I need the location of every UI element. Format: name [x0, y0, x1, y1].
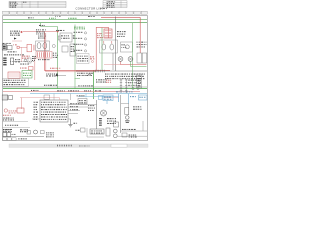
label AP180 — [18, 138, 27, 139]
wire code right of exit 2 — [70, 106, 78, 107]
marks right of BC1 — [12, 134, 16, 135]
labels right of CM2 — [133, 106, 142, 109]
relay K1 (red) — [27, 44, 32, 51]
left relay label cluster — [10, 31, 20, 36]
codes above gray bus — [78, 85, 93, 86]
footer left tabs — [3, 138, 7, 141]
title block text rows — [10, 2, 18, 8]
wire red drop left — [34, 56, 36, 80]
wire pink lower left — [20, 97, 60, 99]
green wire codes top b — [49, 18, 56, 19]
small note above bus — [55, 16, 61, 17]
specks above relay cluster — [39, 25, 45, 26]
small box BC3 — [27, 131, 31, 135]
small box next to SC1 — [28, 58, 31, 63]
schematic border frame — [3, 16, 148, 141]
wire right bottom upper — [120, 130, 147, 132]
labels under fuse row — [4, 54, 24, 55]
wire red left feed — [23, 31, 59, 33]
wire red drop pair B — [45, 33, 47, 72]
round connector CN6b — [113, 134, 117, 138]
labels right of BM1 — [129, 135, 137, 138]
wire red stub CN1 — [120, 61, 122, 64]
U6 text — [71, 46, 75, 52]
bottom connector box BC1b — [7, 133, 11, 137]
text above terminal boxes — [137, 42, 147, 48]
wire green link right — [131, 66, 147, 68]
footer band — [9, 144, 148, 147]
wire red pin a — [32, 45, 34, 51]
blue module B3 — [99, 96, 103, 100]
wire red drop at x96 — [95, 27, 97, 70]
ground symbol GND1 — [68, 119, 72, 127]
relay text cluster — [36, 29, 46, 34]
connector pin stack P1 — [3, 58, 6, 66]
labels under J5 — [38, 59, 49, 60]
terminal circle a — [132, 87, 134, 89]
wire pink lower right — [104, 97, 119, 99]
connector module CM1 — [114, 122, 119, 127]
wire blue branch — [78, 95, 119, 97]
fuse block F1 — [2, 45, 6, 50]
mid-left note — [20, 64, 29, 65]
top small note — [88, 16, 95, 17]
red code near T1 — [13, 44, 17, 45]
WB1 text — [91, 130, 103, 133]
wire green branch drop — [40, 23, 42, 27]
revision table text — [107, 1, 116, 7]
center-right device text block — [78, 56, 89, 62]
blue module BB2 — [139, 95, 148, 100]
cluster right of stacks — [128, 80, 141, 86]
bottom-left note B — [5, 125, 18, 126]
bottom wide box WB1 — [90, 129, 104, 134]
title block right column text — [23, 2, 26, 3]
red list text — [9, 110, 17, 113]
G5 text — [23, 73, 31, 76]
narrow connector box NC1 — [106, 128, 110, 136]
wire HL1 lower exit — [68, 118, 71, 120]
junction box JB1 — [3, 78, 29, 86]
legend list with terminal circles — [74, 32, 87, 52]
right text band rows — [105, 74, 145, 80]
wire bottom run — [87, 136, 104, 138]
footer scale ticks — [57, 145, 72, 147]
wire gray drop right of list box — [70, 94, 72, 100]
connector module CM2 — [125, 108, 129, 115]
right bottom labels — [122, 129, 136, 130]
wire black right drop — [119, 95, 121, 133]
wire gray lower bus — [3, 86, 147, 88]
footer box — [111, 144, 127, 147]
relay box U3 — [60, 33, 72, 42]
wire green stub — [75, 77, 81, 79]
wire red jumper top — [96, 26, 108, 28]
small bottom module BM1 — [122, 133, 127, 137]
blue codes above bus — [116, 91, 133, 92]
wire red drop pair A — [43, 32, 45, 71]
red lamp L2 — [4, 109, 7, 112]
round connector CN5 — [34, 130, 38, 134]
blue module B2 — [103, 95, 113, 101]
BB2 text — [139, 97, 145, 98]
bottom-left note C — [3, 129, 12, 130]
relay text cluster b — [38, 36, 46, 39]
BM2 label — [76, 130, 80, 131]
arrow marker — [14, 38, 17, 40]
U7 labels — [15, 59, 20, 62]
red codes left of M1 — [97, 33, 103, 38]
heater block H1 (red hatch) — [8, 72, 20, 79]
label above U3 — [56, 30, 64, 31]
red codes right of DB1 — [90, 56, 94, 59]
text under junction — [96, 79, 107, 82]
B1 text — [79, 100, 86, 103]
bottom text cluster x20 — [20, 129, 28, 132]
label right of ground — [74, 123, 78, 124]
wire green drop at x57 — [57, 27, 59, 89]
wire green drop at x102 — [101, 28, 103, 71]
connector block J5 (red pins) — [36, 52, 52, 59]
wire codes above blue bus a — [57, 90, 65, 91]
node diamond mid — [56, 74, 58, 76]
blue code right — [130, 96, 136, 97]
right relay text cluster — [117, 31, 126, 37]
wire code right of exit 1 — [70, 103, 79, 104]
bottom-left text rows — [3, 118, 14, 121]
wire pink upper stub — [12, 40, 22, 42]
terminal boxes right — [137, 53, 142, 63]
SV2 red pin a — [103, 41, 105, 44]
connector list strip — [3, 11, 148, 14]
wire stub from diamond — [58, 74, 66, 76]
wire green drop at x75 — [74, 25, 76, 89]
terminal circle b — [137, 87, 139, 89]
wire bottom-left row 2 — [3, 127, 31, 129]
wire green drop at x93 — [93, 71, 95, 100]
wire gray continuation x128 — [128, 104, 130, 116]
wire green bus G2 — [3, 22, 147, 24]
wire bottom-left bus — [3, 136, 45, 138]
wire blue stub down — [106, 101, 108, 105]
wire red mid bus B — [46, 71, 96, 73]
connector stack CN4 — [120, 79, 128, 93]
labels below mid bus left part — [77, 73, 93, 76]
junction dot red/green — [57, 31, 58, 32]
round connector CN6a — [113, 129, 117, 133]
specks under fuse blocks — [8, 51, 17, 52]
text right of U3 — [73, 35, 75, 38]
red note row — [3, 115, 11, 116]
bottom-center text — [46, 132, 54, 137]
small box BC2 — [41, 131, 45, 134]
wire codes above blue bus d — [95, 90, 101, 91]
wire code above red bus — [31, 90, 39, 91]
wire green bus G1 — [3, 19, 147, 21]
wire drop into HL1 top — [53, 94, 55, 100]
red node diamond — [20, 31, 23, 33]
connector circle CC1 — [126, 116, 130, 120]
text left of connector column — [88, 105, 95, 111]
SV3 text — [121, 44, 126, 48]
wire green lower bus — [3, 88, 147, 90]
module B1 — [78, 99, 87, 105]
mid labels under bus — [46, 74, 58, 77]
red module M1 — [104, 29, 112, 38]
wire red pin b — [34, 45, 36, 51]
wires out of HL1 right — [68, 104, 97, 106]
wire list box left link — [32, 118, 40, 120]
wire blue lower bus — [30, 93, 147, 95]
round connector CN2 — [128, 57, 133, 62]
wire red lower bus — [3, 91, 140, 93]
wire black drop x113 — [112, 53, 114, 70]
wire dashed shield link — [10, 61, 34, 63]
wire blue drop x128 — [128, 94, 130, 104]
solenoid block SV2 — [100, 40, 118, 53]
J5 pin labels — [53, 53, 58, 58]
sheet note under rev table — [100, 8, 107, 9]
wire black mid bus right — [76, 70, 147, 72]
module U7 — [11, 58, 14, 65]
text above B1 — [77, 95, 85, 96]
HL1 rows — [41, 102, 67, 120]
red terminal circle — [92, 61, 94, 63]
green module G5 — [22, 71, 32, 79]
bottom-left corner labels — [3, 129, 12, 132]
stack S2 — [99, 118, 102, 126]
wire code right of exit 3 — [70, 109, 78, 110]
solenoid block SV3 — [121, 42, 133, 52]
wire blue drop right — [118, 94, 120, 102]
note right of green drop — [88, 74, 91, 75]
wire gray link y103 — [121, 103, 129, 105]
labels above lower bus — [44, 85, 57, 86]
wire blue stub to B1 — [85, 94, 87, 98]
wire green stub CN2 — [130, 61, 132, 66]
terminal circle right of SV1 — [52, 45, 55, 48]
red terminal T2 — [17, 108, 24, 113]
wire pink stub down — [59, 98, 61, 100]
green wire codes top — [68, 18, 77, 19]
wire green branch run — [41, 26, 58, 28]
wire red mid bus A — [44, 69, 110, 71]
wire black drop x115 — [115, 17, 117, 72]
red codes lower — [106, 80, 111, 83]
red codes upper-mid-left — [22, 56, 30, 59]
module U8b — [9, 96, 13, 100]
small bottom module BM2 — [81, 128, 86, 132]
wire green drop at x132 — [131, 23, 133, 89]
label above fuse blocks — [3, 43, 11, 44]
wire right drop — [142, 121, 144, 131]
wire bottom-left row 1 — [3, 121, 29, 123]
module U5 — [62, 46, 68, 52]
wire codes above blue bus c — [84, 90, 91, 91]
fuse block F2 — [7, 45, 12, 49]
red wire code mid — [50, 68, 60, 69]
B2 text — [104, 97, 112, 100]
pin column box PC1 — [137, 74, 142, 88]
pin numbers left of HL1 — [34, 102, 39, 120]
harness list box HL1 — [40, 100, 68, 122]
wire red top feed — [101, 16, 140, 18]
wire black drop to bottom box — [96, 100, 98, 129]
red note mid-left — [20, 68, 27, 69]
wire red drop at x108 — [108, 27, 110, 38]
title block table (top-left) — [9, 1, 66, 7]
solenoid block SV1 with two coils — [36, 41, 50, 51]
wire codes above blue bus b — [68, 90, 79, 91]
small box above HL1 — [44, 95, 50, 99]
device box DB1 — [77, 54, 90, 64]
specks right column — [32, 56, 36, 61]
round connector CN1 — [118, 57, 123, 62]
green codes mid — [74, 27, 85, 30]
red box RB2 — [29, 67, 34, 71]
wire pink link to connectors — [104, 64, 121, 66]
wire red drop x21 — [21, 98, 23, 109]
sensor circle SC1 — [24, 59, 27, 62]
junction tick marks on mid bus — [95, 70, 104, 73]
U3 text — [61, 35, 69, 38]
wire pink drop left — [21, 47, 23, 62]
connector symbols right-bottom — [101, 110, 107, 116]
JB1 text rows — [4, 80, 26, 85]
bottom connector box BC1a — [3, 133, 7, 137]
labels near S2 — [107, 118, 116, 124]
small module U4 — [58, 36, 60, 40]
junction module U8 — [2, 95, 8, 100]
wire red link T1 — [19, 46, 27, 48]
wire red right drop — [139, 17, 141, 53]
revision table (top-right) — [103, 1, 127, 8]
wire BM2 drop — [86, 128, 88, 137]
wire right bottom lower — [117, 135, 147, 137]
SV3 coil circle — [125, 45, 129, 49]
footer faint text — [79, 145, 89, 146]
red terminal T1 — [17, 46, 19, 48]
SV2 red pin b — [111, 41, 113, 44]
wire red link right — [121, 64, 147, 66]
module U6 — [70, 44, 76, 56]
label TXL above bus — [28, 17, 34, 18]
svg-text:CONNECTOR LIST: CONNECTOR LIST — [76, 6, 104, 10]
